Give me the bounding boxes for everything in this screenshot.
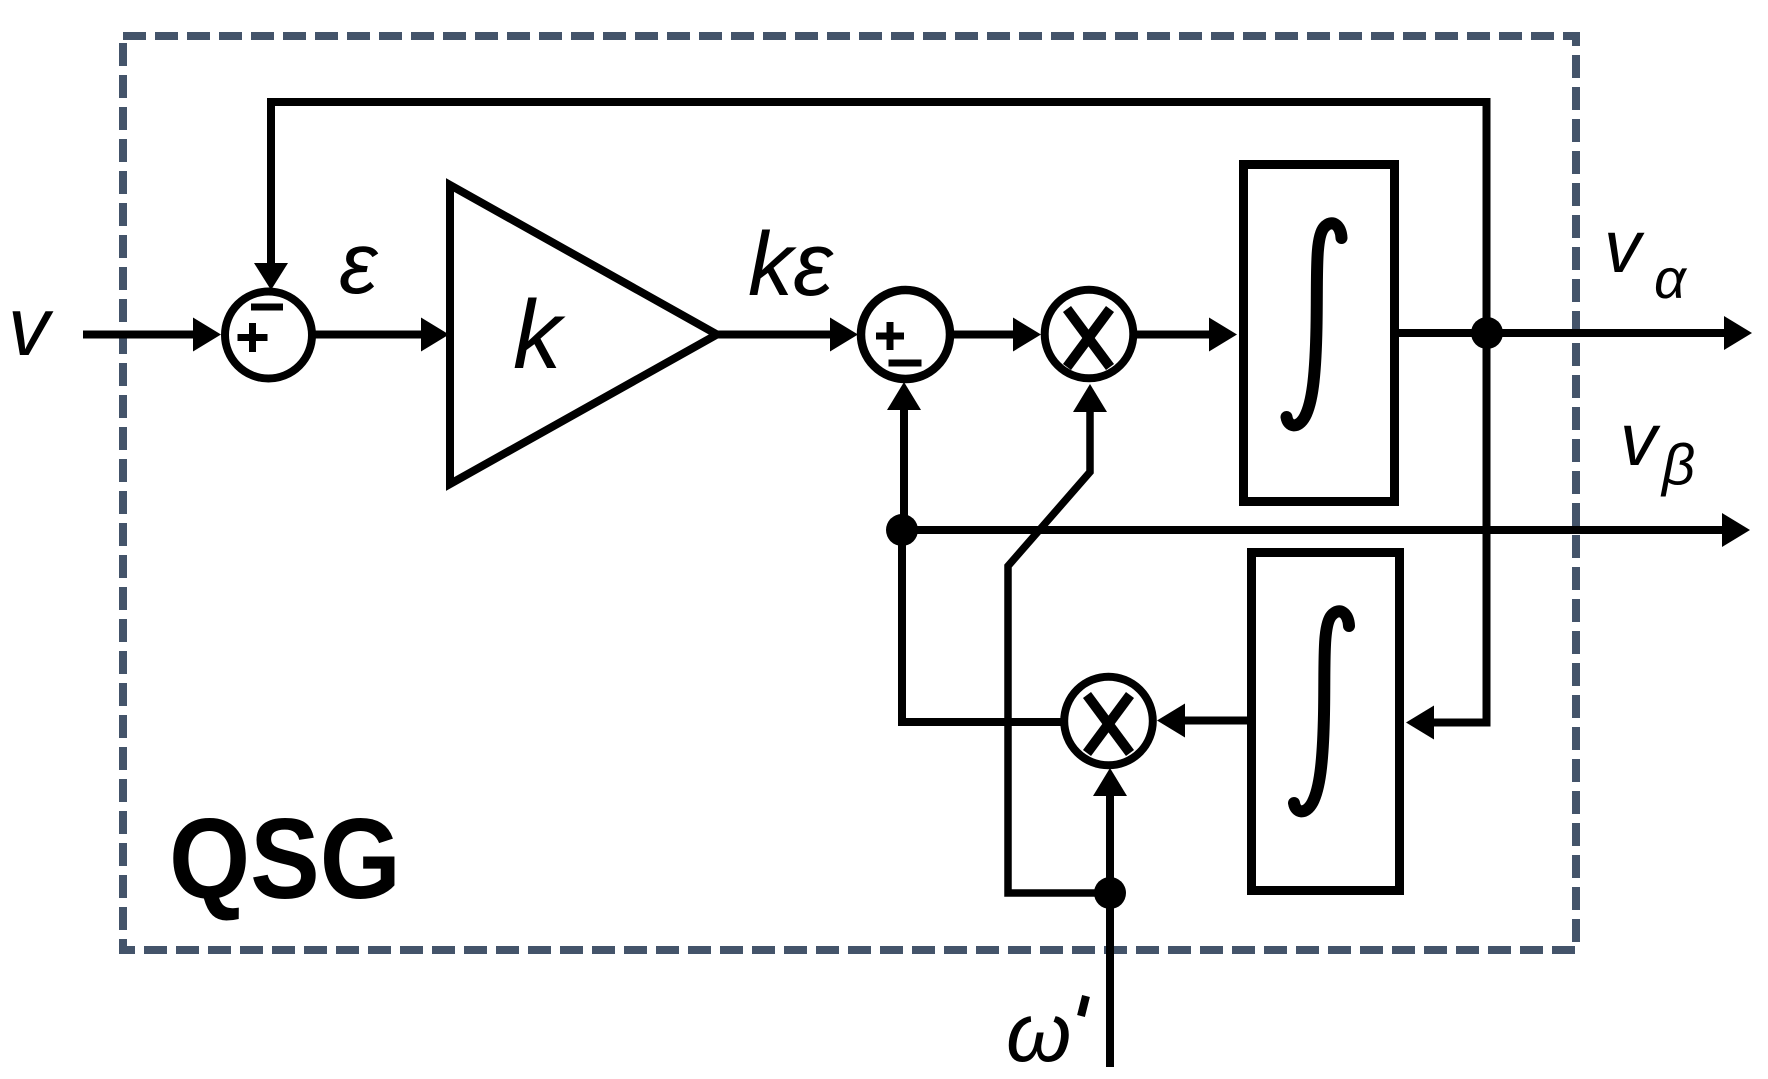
- node dot at valpha takeoff: [1471, 317, 1503, 349]
- wire INT1 to output valpha: [1399, 316, 1752, 350]
- integrator INT2: [1252, 553, 1400, 891]
- svg-text:kε: kε: [748, 215, 834, 315]
- integrator INT1: [1244, 165, 1395, 502]
- svg-text:α: α: [1654, 247, 1688, 310]
- output label vbeta: [1620, 398, 1695, 498]
- QSG dashed boundary box: [123, 36, 1576, 950]
- wire omega-prime input up into M2 bottom: [1093, 768, 1127, 1067]
- multiplier M2: [1064, 677, 1153, 766]
- wire gain K to summer S2: [717, 318, 858, 352]
- wire S2 to multiplier M1: [949, 318, 1041, 352]
- output label valpha: [1604, 205, 1688, 310]
- multiplier M1: [1045, 290, 1134, 379]
- node dot at vbeta takeoff: [886, 514, 918, 546]
- gain block K (triangle): [450, 185, 717, 484]
- label QSG: [169, 796, 401, 923]
- svg-text:ε: ε: [339, 215, 379, 312]
- input label omega-prime: [1006, 985, 1086, 1079]
- wire input v into summer S1: [83, 318, 221, 352]
- svg-text:β: β: [1660, 433, 1695, 498]
- node label epsilon: [339, 215, 379, 312]
- input label v: [8, 280, 54, 373]
- wire M1 to integrator INT1: [1132, 318, 1237, 352]
- svg-text:v: v: [1604, 205, 1645, 288]
- node dot on omega-prime line: [1094, 877, 1126, 909]
- summing junction S1: [225, 292, 312, 379]
- svg-text:v: v: [1620, 398, 1661, 481]
- wire S1 to gain K: [312, 318, 449, 352]
- summing junction S2: [861, 290, 950, 379]
- node label k-epsilon: [748, 215, 834, 315]
- wire INT2 output into M2 right: [1157, 704, 1247, 738]
- wire vbeta node down and right into M2 left: [902, 530, 1062, 722]
- svg-text:v: v: [8, 280, 54, 373]
- wire vbeta output run: [902, 513, 1750, 547]
- wire vbeta up-arrow into S2 bottom: [887, 382, 921, 530]
- svg-text:ω: ω: [1006, 985, 1071, 1079]
- wire omega branch with jog up into M1 bottom: [1008, 384, 1110, 893]
- svg-text:k: k: [513, 280, 566, 389]
- svg-text:QSG: QSG: [169, 796, 401, 923]
- wire feedback valpha loop: down-arrow into S1 top, top run, right drop into integrator2: [254, 102, 1487, 740]
